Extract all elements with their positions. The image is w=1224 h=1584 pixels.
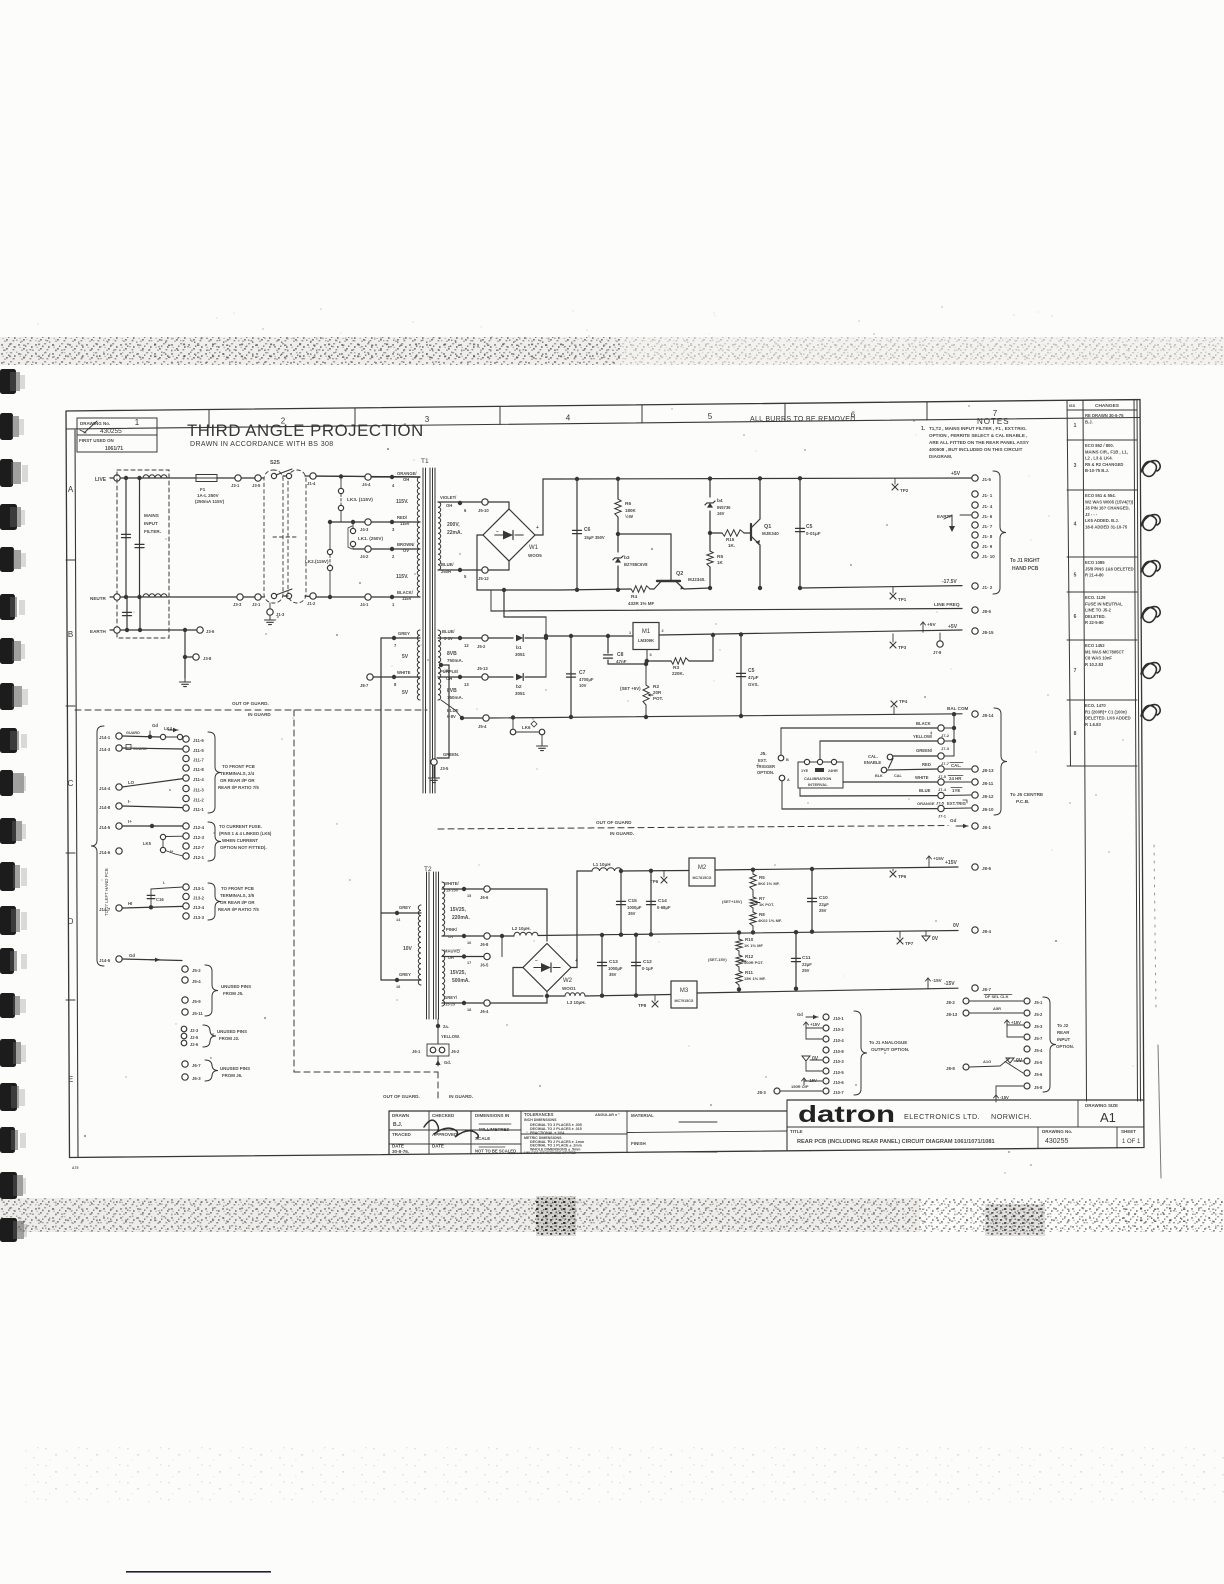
svg-text:IN5736: IN5736	[717, 505, 731, 510]
wire J14-4 LO	[122, 779, 183, 787]
triangle 0V symbol	[925, 931, 927, 936]
svg-text:BLUE: BLUE	[919, 788, 931, 793]
svg-text:WHITE: WHITE	[915, 775, 929, 780]
title row	[787, 1126, 1038, 1128]
regulator M3 box	[671, 981, 697, 1008]
pin neutral input	[114, 594, 120, 600]
svg-text:J7-8: J7-8	[933, 650, 942, 655]
svg-text:4K02 1% MF.: 4K02 1% MF.	[758, 918, 782, 923]
wire J6-6 to bridge	[490, 889, 547, 941]
svg-text:REAR PCB (INCLUDING REAR PA: REAR PCB (INCLUDING REAR PANEL) CIRCUIT …	[797, 1139, 995, 1145]
link LK2	[328, 520, 332, 524]
wire black row	[781, 727, 938, 729]
svg-text:J6-3: J6-3	[192, 1076, 201, 1081]
filter choke live	[143, 475, 167, 478]
svg-text:(SET+15V): (SET+15V)	[722, 899, 743, 904]
zone number ticks top	[208, 410, 210, 428]
svg-text:LIVE: LIVE	[95, 477, 107, 483]
flag +15V J10	[805, 1022, 807, 1029]
svg-text:BZY88C6V8: BZY88C6V8	[624, 562, 648, 567]
svg-text:430255: 430255	[1045, 1138, 1068, 1145]
svg-text:C: C	[68, 779, 74, 788]
wire top rail +supply	[560, 478, 975, 479]
svg-text:ECO. 1129: ECO. 1129	[1085, 595, 1106, 600]
svg-text:15V25,: 15V25,	[450, 907, 466, 913]
svg-text:J14-5: J14-5	[99, 958, 111, 963]
svg-text:BROWN/: BROWN/	[397, 542, 415, 547]
pin J6-5	[484, 953, 490, 959]
resistor R8	[752, 908, 754, 912]
svg-text:OPTION.: OPTION.	[757, 770, 774, 775]
wire common rail BAL COM	[490, 714, 962, 718]
svg-text:J6-1: J6-1	[412, 1049, 421, 1054]
svg-text:OPTION , FERRITE SELECT & CA: OPTION , FERRITE SELECT & CAL ENABLE ,	[929, 433, 1027, 438]
bridge rectifier W1	[488, 501, 509, 503]
svg-text:10V: 10V	[403, 946, 413, 952]
wire filter below neutral	[126, 597, 128, 630]
svg-text:VIOLET/: VIOLET/	[440, 495, 457, 500]
svg-text:-15·25: -15·25	[444, 1003, 455, 1007]
svg-text:INPUT: INPUT	[144, 521, 158, 526]
svg-text:REAR I/P RATIO 7/5: REAR I/P RATIO 7/5	[218, 907, 259, 912]
switch contact neutral	[271, 593, 276, 598]
link LK3	[340, 477, 342, 489]
svg-text:500mA.: 500mA.	[452, 978, 470, 984]
tap GREY 5V	[392, 636, 396, 640]
pin J14-4	[116, 784, 122, 790]
svg-text:UNUSED PINS: UNUSED PINS	[220, 1066, 250, 1071]
svg-text:J8-5: J8-5	[982, 609, 992, 614]
wire bal com drop	[953, 714, 955, 756]
svg-text:T2: T2	[424, 866, 432, 873]
svg-text:INPUT: INPUT	[1057, 1037, 1070, 1042]
pin J6-8	[484, 933, 490, 939]
svg-text:J5/8 PINS 1&6 DELETED: J5/8 PINS 1&6 DELETED	[1085, 566, 1134, 571]
pin J3-6	[197, 627, 203, 633]
wire rectifier elbow to bottom rail	[504, 590, 546, 617]
pin J1-4	[310, 473, 316, 479]
svg-text:J3-5: J3-5	[252, 483, 261, 488]
svg-text:NORWICH.: NORWICH.	[991, 1112, 1032, 1121]
triangle 0V J2	[1006, 1058, 1014, 1063]
svg-text:J8-7: J8-7	[982, 987, 992, 992]
svg-text:A75: A75	[72, 1166, 78, 1170]
flag +15V	[928, 856, 930, 863]
svg-text:J8-4: J8-4	[982, 929, 992, 934]
svg-text:DATE: DATE	[432, 1144, 444, 1149]
svg-text:+: +	[536, 525, 539, 531]
link LK6	[512, 718, 514, 730]
svg-text:J10-7: J10-7	[833, 1090, 844, 1095]
svg-text:D: D	[68, 917, 74, 926]
pin J5-12	[482, 567, 488, 573]
svg-text:18: 18	[467, 1008, 471, 1012]
svg-text:432R 1% MF: 432R 1% MF	[628, 601, 655, 606]
svg-text:HI: HI	[128, 901, 132, 906]
pin J8-7	[972, 985, 978, 991]
svg-text:A: A	[68, 485, 74, 494]
pin J5-2	[482, 635, 488, 641]
svg-text:TOLERANCES: TOLERANCES	[524, 1112, 554, 1117]
svg-text:OH: OH	[448, 956, 454, 960]
svg-text:25V: 25V	[819, 908, 827, 913]
test point TP3	[892, 634, 894, 642]
svg-text:17: 17	[467, 961, 471, 965]
wire J6-5 junction	[501, 936, 503, 957]
svg-text:115V: 115V	[400, 521, 410, 526]
svg-text:W2 WAS W005 (15V4(?)): W2 WAS W005 (15V4(?))	[1085, 499, 1134, 504]
svg-text:BLACK/: BLACK/	[397, 590, 414, 595]
svg-text:J6-7: J6-7	[192, 1063, 201, 1068]
svg-text:CAL.: CAL.	[868, 754, 878, 759]
ground LK6	[541, 735, 543, 742]
svg-text:RE DRAWN 30-5-75: RE DRAWN 30-5-75	[1085, 413, 1124, 418]
svg-text:Gd: Gd	[152, 723, 158, 728]
svg-text:THIRD ANGLE PROJECTION: THIRD ANGLE PROJECTION	[187, 421, 424, 440]
pin J14-3	[116, 745, 122, 751]
wire filter vertical 2	[139, 478, 141, 597]
svg-text:TERMINALS, 3/5: TERMINALS, 3/5	[220, 893, 255, 898]
pin J3-1	[235, 475, 241, 481]
drawing size box	[1077, 1100, 1079, 1127]
svg-text:FROM J5.: FROM J5.	[223, 991, 243, 996]
svg-text:MAINS: MAINS	[144, 513, 159, 518]
svg-text:A5R: A5R	[993, 1006, 1001, 1011]
svg-text:DELETED. LK6 ADDED: DELETED. LK6 ADDED	[1085, 716, 1131, 721]
junction b4 R15	[708, 531, 712, 535]
top scan noise band	[0, 337, 1224, 365]
pin J8-2	[963, 998, 969, 1004]
svg-text:2: 2	[662, 629, 664, 633]
pin J3-8	[193, 654, 199, 660]
title block rows left	[389, 1129, 521, 1131]
pin J7-2	[938, 725, 944, 731]
wire J14-7 HI	[122, 906, 183, 908]
svg-text:M1 WAS MC7805CT: M1 WAS MC7805CT	[1085, 649, 1125, 654]
svg-text:J13-3: J13-3	[193, 915, 205, 920]
svg-text:J8-7: J8-7	[360, 683, 369, 688]
svg-text:B: B	[68, 630, 73, 639]
svg-text:INCH DIMENSIONS: INCH DIMENSIONS	[524, 1118, 557, 1122]
svg-text:FRACTIONAL ± 1/: FRACTIONAL ± 1/64	[530, 1131, 564, 1135]
pin J11-4	[183, 775, 189, 781]
drawing sheet	[66, 400, 1161, 1179]
svg-text:LK5 ADDED. B.J.: LK5 ADDED. B.J.	[1085, 518, 1119, 523]
svg-text:J5-5: J5-5	[1034, 1060, 1043, 1065]
svg-text:J7-4: J7-4	[938, 787, 947, 792]
earth arrow	[951, 515, 953, 528]
svg-text:BLK: BLK	[875, 774, 883, 778]
wire -15V rail	[697, 988, 958, 993]
svg-text:CHANGES: CHANGES	[1095, 403, 1120, 409]
svg-text:J14-5: J14-5	[99, 825, 111, 830]
svg-text:C12: C12	[643, 959, 652, 965]
svg-text:DRAWING SIZE: DRAWING SIZE	[1085, 1103, 1118, 1108]
capacitor C6	[576, 479, 578, 590]
wire T1 5V to T2 vertical	[380, 638, 382, 980]
svg-text:−: −	[496, 529, 499, 535]
svg-text:J5-2: J5-2	[1034, 1012, 1043, 1017]
flag +15V J2	[1006, 1020, 1008, 1027]
svg-text:J6-6: J6-6	[480, 895, 489, 900]
svg-text:4: 4	[566, 414, 571, 423]
svg-text:+5V: +5V	[948, 624, 958, 630]
pin J13-3	[183, 913, 189, 919]
svg-text:To J2: To J2	[1057, 1023, 1069, 1028]
T1 primary winding 115V upper	[417, 477, 420, 522]
svg-text:DATE: DATE	[392, 1144, 404, 1149]
svg-text:J2-6: J2-6	[190, 1042, 199, 1047]
svg-text:ARE ALL FITTED ON THE REAR PAN: ARE ALL FITTED ON THE REAR PANEL ASSY	[929, 440, 1029, 445]
pin J11-2	[183, 795, 189, 801]
svg-text:J7-5: J7-5	[938, 774, 947, 779]
svg-text:R 22-5-80: R 22-5-80	[1085, 620, 1104, 625]
svg-text:12: 12	[464, 643, 469, 648]
svg-text:IN GUARD: IN GUARD	[248, 712, 271, 717]
svg-text:1: 1	[1074, 423, 1077, 429]
resistor R15	[722, 530, 744, 536]
svg-text:J1-2: J1-2	[307, 601, 316, 606]
tap WHITE 5V	[392, 675, 396, 679]
svg-text:TITLE: TITLE	[790, 1129, 803, 1134]
svg-text:1: 1	[135, 418, 140, 427]
svg-text:C8: C8	[617, 652, 624, 658]
svg-text:OUT OF GUARD.: OUT OF GUARD.	[383, 1094, 420, 1099]
svg-text:J2 - - -: J2 - - -	[1085, 512, 1098, 517]
svg-text:6: 6	[1074, 614, 1077, 620]
svg-text:R5 & R2 CHANGED: R5 & R2 CHANGED	[1085, 462, 1123, 467]
svg-text:TO FRONT PCB: TO FRONT PCB	[221, 886, 254, 891]
svg-text:750mA.: 750mA.	[447, 658, 463, 663]
T2 secondary winding lower	[442, 950, 445, 1006]
svg-text:REAR: REAR	[1057, 1030, 1070, 1035]
svg-text:J10-5: J10-5	[833, 1070, 844, 1075]
svg-text:J6-4: J6-4	[480, 1009, 489, 1014]
svg-text:J8-8: J8-8	[946, 1066, 955, 1071]
link LK4	[160, 734, 165, 739]
wire T2 screen	[437, 1019, 439, 1044]
bottom scan noise band	[0, 1198, 920, 1232]
brace J12	[208, 822, 221, 861]
svg-text:J3-5: J3-5	[440, 766, 449, 771]
svg-text:TRACED: TRACED	[392, 1132, 411, 1137]
wire M1 input rail	[546, 635, 633, 637]
svg-text:J14-3: J14-3	[99, 747, 111, 752]
pin J8-4	[972, 927, 978, 933]
svg-text:(250mA 115V): (250mA 115V)	[195, 499, 225, 504]
svg-text:J1- 1: J1- 1	[982, 493, 993, 498]
pin J5-10	[482, 499, 488, 505]
test point TP2	[894, 478, 896, 484]
border frame outer	[66, 400, 1144, 1158]
svg-text:5: 5	[708, 412, 713, 421]
tap BLUE 6.3V	[458, 636, 462, 640]
pin J11-6	[183, 736, 189, 742]
drawing-no box	[77, 418, 157, 435]
svg-text:CAL.: CAL.	[951, 763, 961, 768]
pin J8-17	[367, 674, 373, 680]
transistor Q2	[650, 588, 654, 590]
transformer T2 core	[426, 872, 428, 1019]
svg-text:SHEET: SHEET	[1121, 1129, 1136, 1134]
svg-text:1A-L 250V: 1A-L 250V	[197, 493, 219, 498]
svg-text:+5V: +5V	[927, 622, 936, 628]
svg-text:CHECKED: CHECKED	[432, 1113, 455, 1118]
svg-text:5V: 5V	[402, 690, 409, 696]
svg-text:TERMINALS, 2/4: TERMINALS, 2/4	[220, 771, 255, 776]
svg-text:J7-3: J7-3	[941, 746, 950, 751]
svg-text:J1- 6: J1- 6	[982, 514, 993, 519]
connector J1 pins column	[972, 475, 978, 481]
svg-text:430255: 430255	[100, 428, 122, 435]
svg-text:LK1. (250V): LK1. (250V)	[358, 536, 383, 541]
svg-text:W1: W1	[529, 545, 539, 551]
svg-text:1.: 1.	[921, 426, 926, 432]
ground green	[433, 765, 435, 774]
svg-text:LK2.(115V): LK2.(115V)	[305, 559, 329, 564]
pin J11-1	[183, 805, 189, 811]
wire yellow row	[820, 740, 938, 742]
svg-text:J11-6: J11-6	[193, 738, 204, 743]
svg-text:J5.: J5.	[760, 751, 767, 757]
svg-text:DRAWN IN ACCORDANCE WITH BS 30: DRAWN IN ACCORDANCE WITH BS 308	[190, 441, 334, 448]
guard dashed vertical	[293, 710, 295, 1072]
link LK1	[351, 520, 355, 524]
ground J1-3	[269, 616, 271, 620]
tap ORANGE	[390, 475, 394, 479]
junction neutral LK2	[328, 595, 332, 599]
svg-text:B-10-75 B.J.: B-10-75 B.J.	[1085, 468, 1109, 473]
change row 8	[1067, 765, 1137, 767]
svg-text:J3-8: J3-8	[203, 656, 212, 661]
svg-text:R11: R11	[745, 970, 754, 975]
svg-text:R15: R15	[726, 537, 735, 542]
pin J7-8	[939, 633, 941, 640]
svg-text:UNUSED PINS: UNUSED PINS	[217, 1029, 247, 1034]
pin J7-6	[938, 792, 944, 798]
svg-text:I+: I+	[128, 819, 132, 824]
svg-text:E: E	[68, 1075, 73, 1084]
svg-text:C14: C14	[658, 898, 667, 904]
svg-text:1K 1% MF: 1K 1% MF	[744, 943, 763, 948]
svg-text:J5-4: J5-4	[1034, 1048, 1043, 1053]
pin J4-1	[365, 594, 371, 600]
svg-text:Gd.: Gd.	[444, 1060, 451, 1065]
svg-text:MJ2340.: MJ2340.	[688, 577, 706, 582]
svg-text:b1: b1	[516, 645, 522, 651]
svg-text:OPTION NOT FITTED).: OPTION NOT FITTED).	[220, 845, 267, 850]
svg-text:J6-2: J6-2	[451, 1049, 460, 1054]
svg-text:MAINS CIR., F1B , L1,: MAINS CIR., F1B , L1,	[1085, 449, 1128, 454]
svg-text:GREY: GREY	[399, 905, 411, 910]
svg-text:J1- 4: J1- 4	[982, 504, 993, 509]
svg-text:L3 10μH.: L3 10μH.	[567, 1000, 586, 1005]
guard dashed top	[75, 709, 427, 711]
svg-text:J7-1: J7-1	[938, 814, 947, 819]
svg-text:J11-8: J11-8	[193, 767, 204, 772]
svg-text:+15V: +15V	[810, 1022, 820, 1027]
svg-text:J1- 10: J1- 10	[982, 554, 995, 559]
svg-text:GREY/: GREY/	[444, 995, 458, 1000]
tap RED	[390, 520, 394, 524]
tap BLUE 250H	[458, 568, 462, 572]
svg-text:J12-1: J12-1	[193, 855, 205, 860]
svg-text:R 1.6.83: R 1.6.83	[1085, 722, 1102, 727]
wire line freq	[490, 590, 492, 611]
triangle 0V J10	[802, 1056, 810, 1061]
svg-text:24 HR: 24 HR	[949, 776, 962, 781]
svg-text:J8-13: J8-13	[946, 1012, 958, 1017]
svg-text:4: 4	[1074, 522, 1077, 528]
svg-text:R1 (200R)+ C1 (100n): R1 (200R)+ C1 (100n)	[1085, 709, 1127, 714]
svg-text:J11-1: J11-1	[193, 807, 204, 812]
inductor L3	[547, 995, 565, 997]
pin J6-6	[484, 886, 490, 892]
svg-text:RED: RED	[922, 762, 931, 767]
svg-text:DRAWING No.: DRAWING No.	[1042, 1129, 1072, 1134]
pin J14-5 guard	[116, 956, 122, 962]
svg-text:LK3. (115V): LK3. (115V)	[347, 497, 373, 503]
guard dashed bottom	[294, 1071, 438, 1073]
pot R12	[736, 955, 742, 967]
svg-text:DIAGRAM.: DIAGRAM.	[929, 454, 952, 459]
capacitor C16	[150, 889, 152, 907]
capacitor filter C-b	[135, 543, 144, 545]
svg-text:0V: 0V	[932, 936, 939, 942]
svg-text:TP7: TP7	[905, 941, 914, 946]
inductor L1	[592, 868, 622, 871]
svg-text:J13-1: J13-1	[193, 886, 205, 891]
wire W2 bottom node	[546, 992, 548, 997]
svg-text:1K.: 1K.	[728, 543, 735, 548]
svg-text:3051: 3051	[515, 652, 526, 657]
svg-text:OV: OV	[448, 935, 454, 939]
svg-text:15: 15	[467, 894, 471, 898]
wire green row	[893, 755, 938, 757]
svg-text:J14-4: J14-4	[99, 786, 111, 791]
svg-text:J1-5: J1-5	[982, 477, 992, 482]
svg-text:8: 8	[1074, 731, 1077, 737]
tap BROWN	[390, 547, 394, 551]
svg-text:T1: T1	[421, 458, 429, 465]
svg-text:J8-12: J8-12	[982, 794, 994, 799]
T1 5V primary winding	[417, 630, 420, 700]
svg-text:ECO 551 & 554.: ECO 551 & 554.	[1085, 493, 1116, 498]
svg-text:ORANGE: ORANGE	[917, 801, 935, 806]
pin J8-10	[972, 805, 978, 811]
svg-text:J5-10: J5-10	[478, 508, 489, 513]
test point TP8	[654, 996, 656, 1001]
tap MAUVE	[462, 954, 466, 958]
svg-text:J8-1: J8-1	[982, 825, 992, 830]
pin J8-13b	[963, 1010, 969, 1016]
svg-text:R5: R5	[759, 875, 765, 880]
svg-text:J1-3: J1-3	[276, 612, 285, 617]
svg-text:UNLESS OTHERWISE STATED: UNLESS OTHERWISE STATED	[524, 1151, 577, 1155]
svg-text:TP4: TP4	[899, 699, 908, 704]
svg-text:J8-6: J8-6	[982, 866, 992, 871]
svg-text:7: 7	[1074, 668, 1077, 674]
test point TP1	[892, 587, 894, 593]
svg-text:15: 15	[444, 669, 448, 673]
bottom left ink line	[126, 1571, 271, 1573]
fuse F1	[196, 475, 217, 482]
change row 5	[1067, 591, 1137, 593]
svg-text:GREEN/: GREEN/	[916, 748, 933, 753]
brace unused J2	[203, 1025, 216, 1047]
tap BLACK	[390, 595, 394, 599]
svg-text:200V,: 200V,	[447, 522, 460, 528]
